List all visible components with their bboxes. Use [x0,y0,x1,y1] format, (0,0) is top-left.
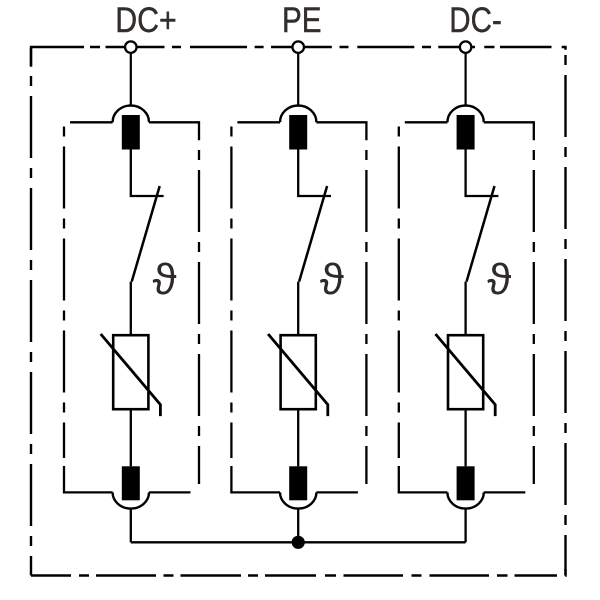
svg-text:DC+: DC+ [115,1,177,40]
svg-text:DC-: DC- [449,1,502,40]
svg-text:PE: PE [282,1,322,40]
